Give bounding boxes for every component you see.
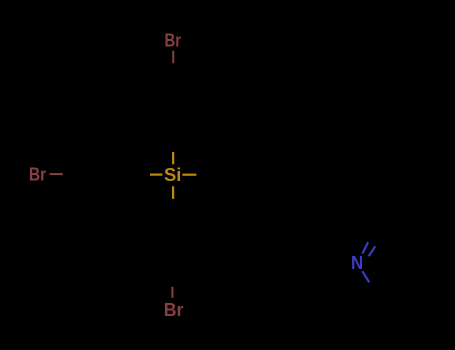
bond stub Si up (half bond) — [172, 152, 174, 164]
single bond N-C stub — [362, 271, 369, 282]
bond stub Si right (half bond) — [182, 174, 196, 176]
bond stub Si left (half bond) — [150, 174, 162, 176]
bond stub Br(left)-C (half bond) — [50, 173, 63, 175]
bond stub Br(bottom)-C (half bond) — [171, 287, 173, 298]
double bond N=C line 2 (outer) — [369, 246, 376, 256]
svg-text:Br: Br — [164, 299, 184, 320]
double bond N=C line 1 (inner) — [362, 242, 368, 254]
svg-text:N: N — [351, 252, 363, 273]
svg-text:Br: Br — [165, 29, 182, 50]
svg-text:Br: Br — [29, 164, 46, 185]
bond stub Br(top)-C (half bond) — [172, 51, 174, 63]
svg-text:Si: Si — [164, 164, 181, 185]
bond stub Si down (half bond) — [172, 186, 174, 199]
